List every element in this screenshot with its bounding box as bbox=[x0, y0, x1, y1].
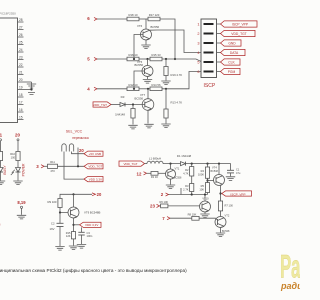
wire pin3 to R11 bbox=[44, 165, 48, 167]
svg-text:R18 10: R18 10 bbox=[128, 13, 137, 17]
svg-text:перемычка: перемычка bbox=[72, 136, 89, 140]
resistor R18 10 bbox=[127, 13, 139, 21]
svg-text:19: 19 bbox=[19, 86, 23, 90]
node 20 arrow at regulator bbox=[92, 192, 102, 197]
svg-text:22: 22 bbox=[19, 63, 23, 67]
svg-text:8,19: 8,19 bbox=[17, 200, 26, 205]
wire VT2 emitter to ground bbox=[221, 226, 225, 232]
svg-text:ISCP_VPP: ISCP_VPP bbox=[232, 23, 249, 27]
connector pin 6 bar bbox=[197, 70, 213, 74]
pin 24 stub bbox=[18, 48, 24, 52]
ground under VT2 bbox=[216, 233, 225, 237]
resistor R7 100 bbox=[218, 201, 233, 211]
wire R10 to LED bbox=[17, 161, 19, 168]
ground under C3 bbox=[77, 245, 86, 249]
wire L1 to D1 bbox=[163, 163, 181, 165]
wire row B from pin 5 bbox=[97, 58, 127, 60]
svg-text:ISCP: ISCP bbox=[204, 83, 216, 89]
wire stub above pin2 row bbox=[180, 188, 182, 195]
svg-text:2: 2 bbox=[0, 223, 1, 227]
svg-text:радиокот.ру: радиокот.ру bbox=[280, 281, 300, 291]
svg-text:23: 23 bbox=[19, 56, 23, 60]
pin 25 stub bbox=[18, 41, 24, 45]
svg-text:R19 4.7K: R19 4.7K bbox=[171, 73, 183, 77]
node MCU pin 2 bbox=[161, 192, 169, 197]
wire VT5 collector down bbox=[148, 75, 152, 79]
svg-text:4: 4 bbox=[197, 51, 199, 55]
svg-text:D1 1N4148: D1 1N4148 bbox=[177, 154, 192, 158]
svg-text:1N4148: 1N4148 bbox=[115, 113, 125, 117]
wire R11 to VDD_TGT flag bbox=[58, 165, 85, 167]
svg-text:DATA: DATA bbox=[230, 51, 239, 55]
resistor R11 470 bbox=[48, 160, 58, 173]
svg-text:R4: R4 bbox=[201, 169, 205, 173]
resistor R16 10 bbox=[127, 53, 139, 61]
svg-text:BUSY: BUSY bbox=[3, 165, 7, 175]
wire VT7 collector down bbox=[148, 109, 152, 124]
ground at IC pin 20 bbox=[27, 84, 36, 88]
ground under VT6 bbox=[141, 45, 150, 49]
inductor L1 680uH bbox=[147, 156, 163, 163]
svg-text:20: 20 bbox=[15, 133, 20, 138]
svg-text:L1 680uH: L1 680uH bbox=[149, 156, 161, 160]
svg-text:+5V USB: +5V USB bbox=[89, 152, 101, 156]
resistor R3 2.7K bbox=[183, 184, 194, 195]
transistor VT4 bbox=[211, 164, 225, 186]
capacitor C2 16V bbox=[50, 221, 64, 246]
svg-text:PIC18F2550: PIC18F2550 bbox=[0, 12, 16, 16]
node MCU pin 7 bbox=[162, 216, 170, 221]
connector pin 5 bar bbox=[197, 60, 213, 64]
net label VDD_TGT at D3 bbox=[93, 102, 120, 107]
svg-text:20: 20 bbox=[19, 78, 23, 82]
wire busy LED to ground bbox=[0, 172, 2, 181]
svg-text:VT10: VT10 bbox=[202, 196, 209, 200]
wire jumper left prong down to VDD 3.3V bbox=[64, 152, 84, 180]
pin 20 stub bbox=[18, 78, 32, 82]
svg-text:100K: 100K bbox=[198, 172, 204, 176]
svg-text:VT9 BC548B: VT9 BC548B bbox=[84, 210, 100, 214]
wire between row A resistors bbox=[139, 18, 148, 20]
resistor R6 10K bbox=[159, 200, 168, 208]
pin 22 stub bbox=[18, 63, 24, 67]
transistor VT6 bbox=[137, 19, 159, 40]
resistor R9 100 bbox=[47, 199, 62, 208]
svg-text:C2: C2 bbox=[51, 221, 55, 225]
wire busy pin to resistor bbox=[0, 141, 2, 152]
svg-text:CLK: CLK bbox=[228, 61, 235, 65]
svg-text:BC556: BC556 bbox=[151, 25, 160, 29]
transistor VT7 bbox=[135, 89, 154, 110]
svg-text:25: 25 bbox=[19, 41, 23, 45]
connector pin 1 bar bbox=[197, 22, 213, 26]
resistor R?? busy (clipped) bbox=[0, 152, 3, 161]
svg-text:1: 1 bbox=[197, 22, 199, 26]
net label VDD_TGT at boost input bbox=[119, 161, 147, 166]
svg-text:R13 4.7K: R13 4.7K bbox=[171, 101, 183, 105]
svg-text:16: 16 bbox=[19, 108, 23, 112]
wire pin7 to R8 bbox=[170, 217, 192, 219]
wire row A from pin 6 bbox=[97, 18, 127, 20]
svg-text:R11: R11 bbox=[50, 160, 55, 164]
wire VT6 emitter to DATA route bbox=[150, 30, 202, 53]
net label CLK pin5 bbox=[217, 59, 241, 65]
svg-text:R12 10: R12 10 bbox=[128, 83, 137, 87]
svg-text:12K: 12K bbox=[66, 234, 71, 238]
svg-text:R3: R3 bbox=[185, 184, 189, 188]
svg-text:VDD_TGT: VDD_TGT bbox=[88, 165, 102, 169]
svg-text:15: 15 bbox=[19, 116, 23, 120]
wire pin20 to R10 bbox=[17, 141, 19, 152]
ground under POWER LED bbox=[13, 181, 22, 185]
svg-text:100: 100 bbox=[11, 156, 16, 160]
resistor R1 1K bbox=[151, 172, 158, 180]
wire regulator top rail bbox=[60, 193, 92, 198]
svg-text:BC556: BC556 bbox=[135, 63, 144, 67]
svg-text:VDD_TGT: VDD_TGT bbox=[231, 32, 246, 36]
svg-text:VDD 3,3V: VDD 3,3V bbox=[85, 223, 98, 227]
net label +5V USB bbox=[72, 151, 104, 156]
svg-text:C1: C1 bbox=[236, 168, 240, 172]
svg-text:470: 470 bbox=[50, 169, 55, 173]
node MCU pin 6 bbox=[87, 16, 97, 21]
svg-text:GND: GND bbox=[228, 42, 236, 46]
wire VT5 base to row C bbox=[133, 71, 145, 90]
net label ISCP_VPP pin1 bbox=[217, 21, 258, 27]
connector J1 ISCP body bbox=[201, 19, 217, 78]
wire boost top rail bbox=[186, 163, 231, 171]
svg-text:VDD_TGT: VDD_TGT bbox=[93, 103, 107, 107]
wire VT6 base to row B bbox=[133, 35, 143, 61]
pin 16 stub bbox=[18, 108, 24, 112]
wire pin12 to R1 bbox=[147, 172, 152, 174]
svg-text:3: 3 bbox=[197, 41, 199, 45]
pin 18 stub bbox=[18, 93, 24, 97]
pin 17 stub bbox=[18, 101, 24, 105]
node MCU pin 3 bbox=[36, 164, 44, 169]
svg-text:20: 20 bbox=[97, 192, 102, 197]
wire between row B resistors bbox=[139, 58, 150, 60]
connector pin 4 bar bbox=[197, 51, 213, 55]
wire VT10 emitter to ground bbox=[205, 211, 209, 214]
resistor R4 100K bbox=[198, 164, 210, 179]
resistor R17 120 bbox=[148, 13, 160, 21]
wire VT9 emitter down bbox=[72, 217, 77, 232]
svg-text:BC558: BC558 bbox=[174, 177, 182, 180]
transistor VT1 bbox=[166, 164, 182, 180]
svg-text:R7 100: R7 100 bbox=[225, 204, 234, 208]
svg-text:6: 6 bbox=[197, 70, 199, 74]
pin 28 stub bbox=[18, 18, 24, 22]
net label VDD 3,3V at VT9 bbox=[74, 222, 102, 227]
LED BUSY diode bbox=[0, 168, 3, 173]
node MCU pin 1 (busy LED, clipped) bbox=[0, 133, 3, 141]
capacitor C3 100n bbox=[78, 227, 93, 244]
ground under VT7 bbox=[144, 124, 153, 128]
wire pin2 row bbox=[169, 193, 208, 195]
diode D1 1N4148 bbox=[177, 154, 192, 166]
wire R1 to VT1 base bbox=[158, 172, 166, 174]
jumper SEL_VCC prongs bbox=[62, 144, 78, 166]
net label ISCP_VPP at boost output bbox=[221, 191, 252, 197]
svg-text:VDD_TGT: VDD_TGT bbox=[123, 162, 137, 166]
capacitor C1 47u bbox=[227, 168, 241, 177]
wire to busy LED bbox=[0, 161, 2, 168]
svg-text:VDD 3,3V: VDD 3,3V bbox=[89, 178, 102, 182]
svg-text:23: 23 bbox=[150, 203, 155, 208]
resistor R10 bbox=[10, 152, 20, 161]
ground under R15 bbox=[69, 246, 78, 250]
svg-text:21: 21 bbox=[19, 71, 23, 75]
resistor R13 4.7K vertical on row C bbox=[164, 89, 182, 124]
pin 19 stub bbox=[18, 86, 32, 90]
svg-text:SEL_VCC: SEL_VCC bbox=[66, 130, 83, 134]
svg-text:PGM: PGM bbox=[228, 70, 236, 74]
svg-text:R2: R2 bbox=[185, 168, 189, 172]
svg-text:16V: 16V bbox=[50, 227, 55, 231]
LED POWER diode bbox=[11, 168, 21, 176]
svg-text:R5: R5 bbox=[201, 184, 205, 188]
svg-text:17: 17 bbox=[19, 101, 23, 105]
pin 15 stub bbox=[18, 116, 24, 120]
transistor VT10 bbox=[200, 195, 211, 213]
svg-text:47u: 47u bbox=[236, 171, 241, 175]
svg-text:R9 100: R9 100 bbox=[47, 200, 56, 204]
pin 21 stub bbox=[18, 71, 24, 75]
ground under R13 bbox=[161, 124, 170, 128]
net label VDD 3,3V at jumper bbox=[84, 177, 103, 182]
wire row C from pin 4 bbox=[97, 88, 127, 90]
ground for pins 8,19 bbox=[17, 215, 26, 219]
net label DATA pin4 bbox=[217, 49, 246, 55]
svg-text:20: 20 bbox=[79, 148, 84, 153]
net label GND pin3 bbox=[217, 40, 242, 46]
wire LED to ground bbox=[17, 172, 19, 181]
svg-text:BC548: BC548 bbox=[211, 170, 219, 173]
node MCU pin 12 bbox=[137, 171, 147, 176]
ground under C1 bbox=[226, 177, 235, 181]
transistor VT9 BC548B bbox=[68, 194, 100, 218]
node MCU pins 8,19 to ground bbox=[17, 200, 26, 215]
svg-text:BC548: BC548 bbox=[222, 230, 230, 233]
svg-text:VT4: VT4 bbox=[212, 166, 217, 170]
svg-text:R6 10K: R6 10K bbox=[159, 200, 168, 204]
ground at IC pin 19 bbox=[28, 93, 35, 95]
diode D3 1N4148 bbox=[115, 95, 126, 117]
wire R6 to VT10 base bbox=[168, 205, 200, 207]
svg-text:2.7K: 2.7K bbox=[183, 188, 189, 192]
pin 23 stub bbox=[18, 56, 24, 60]
svg-text:100n: 100n bbox=[87, 234, 93, 238]
wire R8 to VT2 base bbox=[199, 218, 217, 220]
svg-text:26: 26 bbox=[19, 33, 23, 37]
svg-text:R14 56: R14 56 bbox=[151, 83, 160, 87]
svg-text:27: 27 bbox=[19, 26, 23, 30]
node MCU pin 4 bbox=[87, 86, 97, 91]
pin 27 stub bbox=[18, 26, 24, 30]
wire row B to connector pin 5 bbox=[162, 58, 201, 62]
resistor R14 56 bbox=[150, 83, 162, 91]
resistor under VT7 base bbox=[131, 105, 135, 125]
ground under VT10 bbox=[200, 214, 209, 218]
ground under VT7 base resistor bbox=[128, 125, 137, 129]
wire R15 to ground bbox=[73, 239, 75, 246]
svg-text:VT2: VT2 bbox=[225, 213, 230, 217]
svg-text:R17 120: R17 120 bbox=[149, 13, 160, 17]
transistor VT2 bbox=[215, 211, 230, 233]
svg-text:Радиокот: Радиокот bbox=[280, 249, 300, 285]
wire C2 branch bbox=[59, 213, 61, 224]
resistor R15 33 bbox=[150, 53, 162, 61]
svg-text:VT1: VT1 bbox=[175, 167, 180, 171]
ground under BUSY LED bbox=[0, 181, 5, 185]
ground under R19 bbox=[161, 81, 170, 85]
wire VT4 emitter down to R7 bbox=[219, 184, 222, 201]
connector pin 3 bar bbox=[197, 41, 213, 45]
svg-text:28: 28 bbox=[19, 18, 23, 22]
ground under VT5 bbox=[143, 80, 152, 84]
wire R9 to VT9 base bbox=[59, 208, 68, 214]
svg-text:POWER: POWER bbox=[21, 163, 25, 176]
wire VT7 base bbox=[126, 103, 145, 105]
svg-text:4.7K: 4.7K bbox=[183, 171, 189, 175]
resistor R15 12K bbox=[66, 231, 76, 239]
node MCU pin 5 bbox=[87, 57, 97, 62]
wire VT1 collector to ground bbox=[170, 179, 172, 185]
svg-text:BC556: BC556 bbox=[135, 96, 144, 100]
wire R4 to VT4 base bbox=[206, 178, 213, 182]
svg-text:R8 10K: R8 10K bbox=[188, 213, 197, 217]
svg-text:2: 2 bbox=[197, 32, 199, 36]
node MCU pin 20 (power LED) bbox=[15, 133, 20, 141]
svg-text:C3: C3 bbox=[87, 231, 91, 235]
wire row A to corner down to row B bbox=[160, 19, 176, 60]
svg-text:ISCP_VPP: ISCP_VPP bbox=[230, 192, 245, 196]
svg-text:ринципиальная схема PICkit2 (ц: ринципиальная схема PICkit2 (цифры красн… bbox=[0, 268, 187, 273]
resistor R2 4.7K bbox=[183, 164, 194, 176]
net label PGM pin6 bbox=[217, 68, 241, 74]
svg-text:R16 10: R16 10 bbox=[128, 53, 137, 57]
wire R2 to R3 bbox=[191, 176, 193, 184]
svg-text:10K: 10K bbox=[199, 187, 204, 191]
resistor R5 10K bbox=[199, 183, 209, 195]
ground under C2 bbox=[55, 247, 64, 251]
wire between row C resistors bbox=[139, 88, 150, 90]
svg-text:R15 33: R15 33 bbox=[151, 53, 160, 57]
resistor R12 10 bbox=[127, 83, 139, 91]
svg-text:5: 5 bbox=[197, 60, 199, 64]
wire VT6 collector down bbox=[146, 39, 150, 45]
ground under VT1 bbox=[166, 185, 175, 189]
wire row C to connector pin 6 bbox=[162, 72, 201, 90]
svg-text:12: 12 bbox=[137, 171, 142, 176]
svg-text:R10: R10 bbox=[10, 152, 15, 156]
svg-text:18: 18 bbox=[19, 93, 23, 97]
transistor VT5 bbox=[135, 59, 154, 77]
resistor R19 4.7K vertical on row B bbox=[164, 59, 182, 81]
net label VDD_TGT at jumper bbox=[84, 164, 103, 169]
connector pin 2 bar bbox=[197, 32, 213, 36]
svg-text:VT6: VT6 bbox=[137, 24, 143, 28]
resistor R8 10K bbox=[188, 213, 199, 221]
svg-text:R1 1K: R1 1K bbox=[151, 175, 158, 179]
net label VDD_TGT pin2 bbox=[217, 30, 256, 36]
svg-text:D3: D3 bbox=[121, 95, 125, 99]
wire pins 20/19 to ground bbox=[30, 82, 32, 91]
pin 26 stub bbox=[18, 33, 24, 37]
svg-text:24: 24 bbox=[19, 48, 23, 52]
IC U1 PIC18F2550 body bbox=[0, 18, 18, 123]
node MCU pin 23 bbox=[150, 203, 159, 208]
